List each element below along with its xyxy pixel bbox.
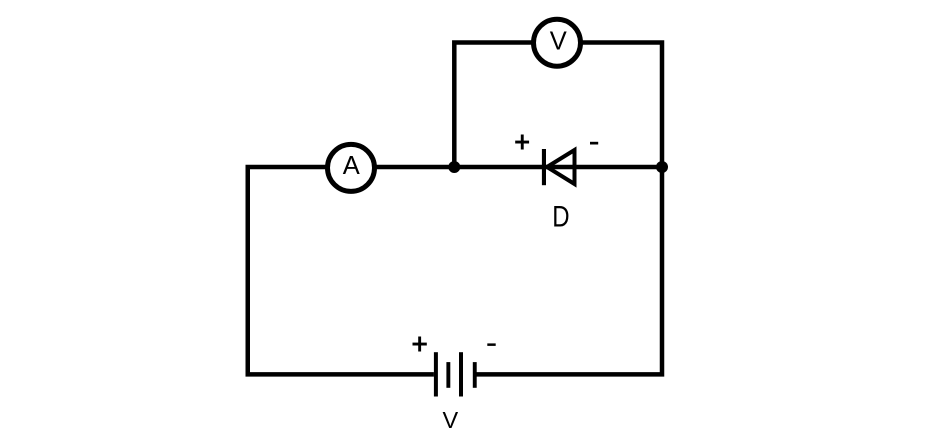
svg-text:V: V [550, 27, 567, 55]
svg-text:A: A [343, 152, 360, 180]
svg-text:V: V [442, 407, 458, 433]
svg-text:D: D [552, 199, 569, 233]
